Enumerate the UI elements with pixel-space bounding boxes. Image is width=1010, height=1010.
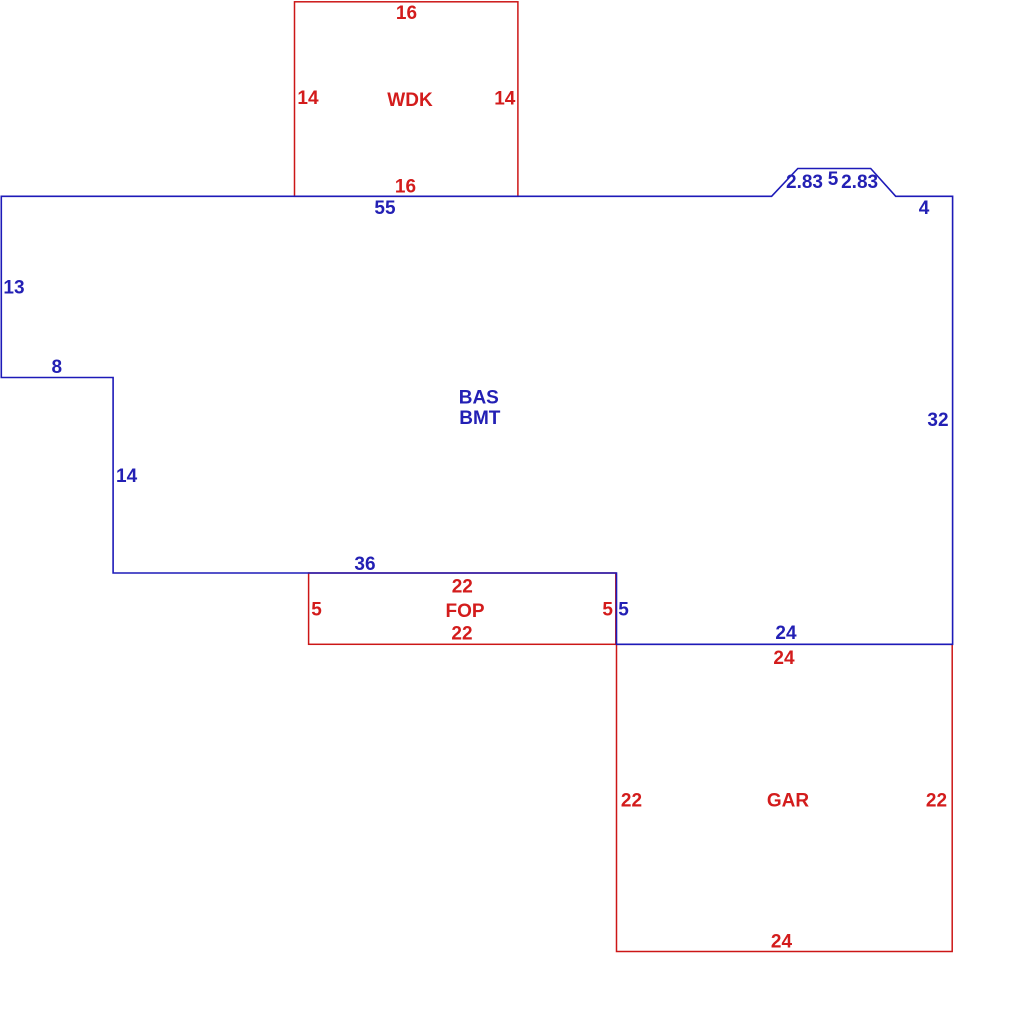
svg-text:16: 16	[396, 3, 417, 24]
svg-text:2.83: 2.83	[841, 172, 878, 193]
svg-text:36: 36	[354, 554, 375, 575]
svg-text:WDK: WDK	[387, 90, 433, 111]
svg-text:5: 5	[618, 600, 629, 621]
svg-text:32: 32	[927, 410, 948, 431]
svg-text:FOP: FOP	[445, 601, 484, 622]
svg-text:4: 4	[919, 198, 930, 219]
svg-text:BMT: BMT	[459, 408, 501, 429]
svg-text:14: 14	[494, 89, 516, 110]
GAR garage outline	[617, 644, 953, 951]
svg-text:5: 5	[311, 600, 322, 621]
svg-text:22: 22	[452, 577, 473, 598]
BAS/BMT main dwelling outline with bay notch	[1, 169, 952, 645]
svg-text:22: 22	[621, 791, 642, 812]
svg-text:2.83: 2.83	[786, 172, 823, 193]
svg-text:BAS: BAS	[459, 388, 499, 409]
svg-text:55: 55	[374, 198, 396, 219]
FOP porch outline	[309, 573, 616, 644]
svg-text:5: 5	[828, 169, 839, 190]
svg-text:22: 22	[451, 624, 472, 645]
WDK deck outline	[295, 2, 518, 197]
svg-text:24: 24	[773, 648, 795, 669]
svg-text:13: 13	[3, 278, 24, 299]
svg-text:14: 14	[297, 88, 319, 109]
svg-text:GAR: GAR	[767, 791, 810, 812]
svg-text:24: 24	[775, 623, 797, 644]
svg-text:22: 22	[926, 791, 947, 812]
svg-text:14: 14	[116, 466, 138, 487]
svg-text:24: 24	[771, 932, 793, 953]
svg-text:8: 8	[52, 357, 63, 378]
svg-text:16: 16	[395, 177, 416, 198]
svg-text:5: 5	[602, 600, 613, 621]
